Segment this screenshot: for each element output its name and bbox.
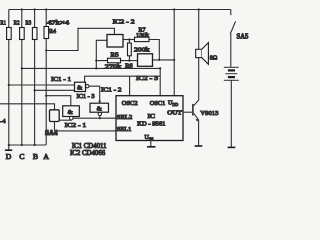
svg-text:UDD: UDD (168, 101, 178, 108)
node: bus junction dots (8, 144, 36, 146)
wire: IC1-1 output to gate IC1-2 (89, 86, 100, 103)
wire: USS pin to ground terminal (150, 141, 152, 147)
svg-text:&: & (97, 106, 103, 113)
svg-text:IC2 - 2: IC2 - 2 (113, 18, 135, 25)
terminal tick USS (147, 146, 156, 148)
svg-text:R4: R4 (49, 28, 57, 35)
svg-text:OUT: OUT (167, 110, 182, 117)
wire: switch to battery (230, 34, 232, 67)
nand gate IC1-2 (90, 103, 109, 112)
svg-text:IC1 - 1: IC1 - 1 (51, 76, 71, 83)
wire: column A bottom corner (45, 144, 48, 146)
node: dot R5 right (128, 60, 130, 62)
node: dot on column B (34, 89, 36, 91)
svg-text:47k×4: 47k×4 (47, 20, 70, 27)
speaker SA5 8ohm (196, 43, 209, 65)
svg-text:IC2 - 1: IC2 - 1 (65, 122, 87, 129)
wire: speaker to collector (198, 58, 200, 101)
wire: battery negative down to terminal (230, 80, 232, 147)
svg-text:V9013: V9013 (200, 110, 219, 117)
svg-text:R5: R5 (111, 52, 119, 59)
wire: IC1-1 input from column B (35, 89, 75, 91)
terminal tick emitter (195, 145, 203, 147)
analog switch IC2-3 (138, 54, 153, 67)
svg-text:200k: 200k (134, 46, 150, 53)
wire: VDD vertical from rail to IC (173, 10, 175, 96)
wire: bottom bus connecting D C B A columns (9, 144, 46, 146)
svg-text:B: B (33, 152, 38, 161)
resistor R2 (20, 28, 25, 40)
wire: column D vertical (8, 10, 10, 150)
node: rail junction dots (21, 8, 200, 10)
node: dot on column A (45, 95, 47, 97)
node: dot on column D (8, 84, 10, 86)
svg-text:C: C (19, 152, 24, 161)
resistor R5 270k (108, 58, 121, 63)
wire: column B vertical (34, 10, 36, 146)
node: dot above IC1-2 (99, 100, 101, 102)
svg-text:IC1 - 3: IC1 - 3 (77, 93, 96, 100)
wire: R5 horizontal wire (96, 60, 129, 62)
svg-text:USS: USS (145, 135, 154, 142)
op-amp IC KD-9561 block (116, 96, 183, 141)
transistor V9013 (193, 100, 199, 121)
wire: speaker feed from rail (198, 10, 200, 50)
svg-text:&: & (68, 109, 74, 116)
wire: IC2-2 left pin down to node W1 (96, 40, 107, 68)
node: dot W1 bottom (95, 67, 97, 69)
svg-text:SA5: SA5 (237, 34, 249, 41)
svg-text:270k: 270k (105, 63, 123, 70)
node: dot on SEL2 line (99, 117, 101, 119)
wire: top power rail (9, 9, 231, 11)
resistor R7 130k (135, 37, 150, 41)
node: IC1-1 output bubble (86, 85, 89, 88)
switch SA5 (230, 10, 235, 35)
node: IC1-3 output bubble (70, 116, 74, 120)
wire: IC2-3 right pin to VDD line (153, 59, 175, 61)
node: IC1-2 output bubble (98, 112, 101, 115)
svg-text:8Ω: 8Ω (210, 54, 218, 61)
svg-text:R2: R2 (14, 19, 20, 26)
wire: IC2-3 left pin (129, 60, 137, 62)
wire: IC2-2 right pin (123, 39, 129, 41)
wire: column A vertical (45, 10, 47, 146)
svg-text:IC: IC (148, 113, 156, 120)
wire: OUT to transistor base (183, 111, 192, 113)
wire: gate IC1-1 top pin long line (85, 76, 161, 82)
svg-text:SEL1: SEL1 (117, 126, 132, 133)
battery GB (224, 67, 239, 80)
wire: OSC1 vertical into IC (159, 68, 161, 95)
wire: column A branch to IC2-2 input (46, 28, 114, 50)
resistor R3 (32, 28, 37, 40)
node: dot on column A at y=50.5 (45, 49, 47, 51)
node: dot at R6 top (128, 38, 130, 40)
svg-text:R1: R1 (0, 19, 6, 26)
wire: emitter down to ground terminal (198, 120, 200, 146)
wire: R6 top junction (128, 40, 130, 44)
wire: SA4 bottom pin to SEL1 (55, 122, 117, 131)
svg-text:OSC2: OSC2 (122, 100, 138, 107)
nand gate IC1-3 (63, 106, 80, 117)
wire: OSC2 vertical into IC (129, 76, 131, 96)
svg-text:-4: -4 (0, 118, 6, 125)
node: dot at VDD join (173, 59, 175, 61)
terminal tick battery (228, 146, 236, 148)
terminal tick under column D (5, 149, 12, 151)
svg-text:D: D (6, 152, 12, 161)
wire: IC1-1 input from column D (9, 84, 75, 86)
wire: R7 right lead down to IC2-3 output (149, 40, 159, 60)
svg-text:130k: 130k (136, 32, 150, 39)
wire: column C vertical (21, 10, 23, 146)
resistor R4 (44, 27, 49, 39)
node: dot W1/R5 left (95, 60, 97, 62)
analog switch IC2-2 (107, 35, 123, 48)
svg-text:IC1 - 2: IC1 - 2 (101, 86, 122, 93)
wire: SEL2 line (73, 117, 116, 119)
op-amp gate IC1-1 (75, 82, 86, 91)
node: dot column C (21, 67, 23, 69)
resistor R1 (7, 28, 12, 40)
wire: left edge line to SA4 (0, 104, 55, 110)
wire: R7 left lead (129, 39, 134, 41)
wire: column A branch to IC1-3 top (46, 96, 71, 106)
node: dot R7 drop (158, 59, 160, 61)
svg-text:KD - 9561: KD - 9561 (137, 120, 165, 127)
wire: SA4 right pin to IC1-3 output node (59, 119, 71, 121)
svg-text:SEL2: SEL2 (117, 114, 133, 121)
svg-text:OSC1: OSC1 (150, 100, 166, 107)
svg-text:IC2 CD4066: IC2 CD4066 (70, 149, 106, 157)
resistor R6 200k vertical (128, 43, 132, 61)
node: dot OSC1 join (159, 67, 161, 69)
analog switch SA4 box (IC2-1) (50, 110, 60, 122)
svg-text:R3: R3 (25, 19, 31, 26)
svg-text:A: A (43, 152, 49, 161)
wire: column C line to OSC1 (22, 67, 160, 69)
svg-text:&: & (77, 85, 83, 92)
wire: IC1-2 output to SEL2 (99, 116, 101, 119)
